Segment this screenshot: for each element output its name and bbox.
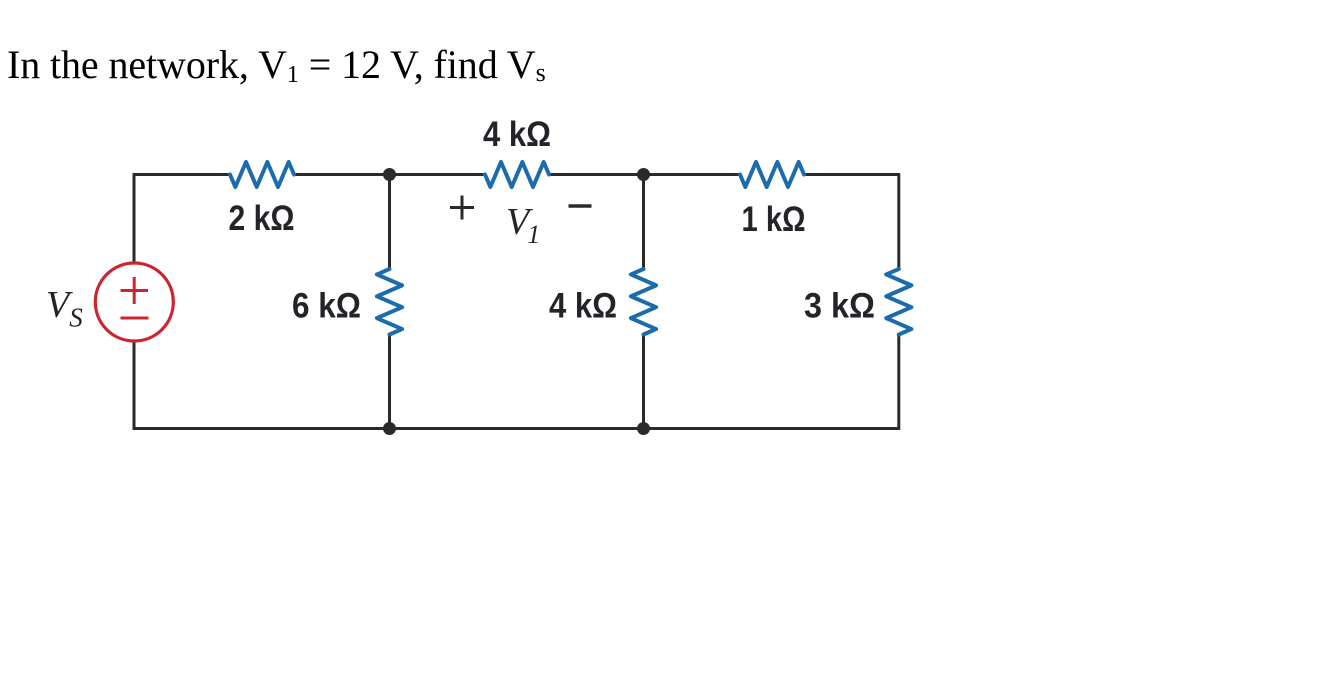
node A (top junction dot left) [383, 168, 396, 181]
wire: left rail lower + bottom wire + right rail lower [134, 335, 899, 429]
svg-text:V1: V1 [506, 201, 540, 249]
svg-text:3 kΩ: 3 kΩ [804, 287, 875, 326]
resistor 6 kOhm (vertical zigzag) [377, 269, 402, 335]
plus sign of V1 polarity [450, 196, 474, 220]
voltage source Vs (circle) [95, 263, 173, 341]
svg-text:In the network, V1 = 12 V, fin: In the network, V1 = 12 V, find Vs [7, 42, 546, 88]
node B (top junction dot right) [637, 168, 650, 181]
wire: top-left corner (left rail upper + top wire to 2k resistor) [134, 175, 230, 264]
resistor 1 kOhm (horizontal zigzag, top right) [740, 162, 804, 187]
wire: middle rail 2 lower (4k vertical down to bottom) [642, 335, 645, 429]
node C (bottom junction dot left) [383, 422, 396, 435]
wire: top between 4k resistor and node B [549, 173, 740, 176]
svg-text:2 kΩ: 2 kΩ [229, 199, 295, 238]
resistor 3 kOhm (vertical zigzag, right) [886, 269, 911, 335]
svg-text:1 kΩ: 1 kΩ [742, 200, 806, 239]
wire: top-right corner (after 1k resistor down to 3k resistor) [804, 175, 899, 270]
svg-text:6 kΩ: 6 kΩ [292, 287, 361, 326]
node D (bottom junction dot right) [637, 422, 650, 435]
svg-text:VS: VS [46, 284, 83, 333]
resistor 4 kOhm (vertical zigzag, middle) [631, 269, 656, 335]
resistor 2 kOhm (horizontal zigzag) [230, 162, 294, 187]
resistor 4 kOhm (horizontal zigzag, top middle) [485, 162, 549, 187]
wire: middle rail 1 lower (6k down to bottom) [388, 335, 391, 429]
svg-text:4 kΩ: 4 kΩ [549, 287, 617, 326]
voltage source plus sign [121, 277, 149, 304]
voltage source minus sign [121, 317, 149, 320]
svg-text:4 kΩ: 4 kΩ [483, 115, 551, 154]
wire: middle rail 2 upper (node B down to 4k vertical) [642, 175, 645, 270]
wire: middle rail 1 upper (node A down to 6k) [388, 175, 391, 270]
wire: top between 2k resistor and node A [294, 173, 485, 176]
minus sign of V1 polarity [569, 204, 592, 208]
